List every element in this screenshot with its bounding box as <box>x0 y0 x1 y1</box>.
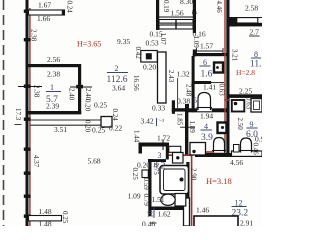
svg-text:2.48: 2.48 <box>185 84 193 97</box>
svg-text:2.56: 2.56 <box>47 55 60 64</box>
window stub top-left <box>29 10 65 15</box>
svg-text:2.25: 2.25 <box>239 87 252 96</box>
svg-text:2.91: 2.91 <box>240 219 253 227</box>
svg-text:0.38: 0.38 <box>177 97 190 106</box>
wall room3 jog <box>148 159 166 162</box>
tick left wall y86 <box>18 86 42 88</box>
svg-text:3.42: 3.42 <box>141 117 154 126</box>
svg-text:2.75: 2.75 <box>152 163 160 176</box>
wall room4 left <box>185 111 188 155</box>
svg-text:0.24: 0.24 <box>66 1 74 14</box>
wall room1 right <box>78 64 81 114</box>
svg-text:0.63: 0.63 <box>218 84 226 97</box>
svg-text:1.41: 1.41 <box>203 83 216 92</box>
svg-text:H=3.18: H=3.18 <box>206 176 232 186</box>
svg-text:0.46: 0.46 <box>142 220 155 227</box>
toilet room10 <box>175 194 186 207</box>
wall toilet5 left <box>192 84 195 112</box>
wall room12 left white-cored <box>184 198 190 226</box>
svg-text:2: 2 <box>115 64 119 73</box>
svg-text:1.85: 1.85 <box>176 113 184 126</box>
svg-text:3: 3 <box>158 151 162 160</box>
svg-text:2.7: 2.7 <box>250 28 260 37</box>
svg-text:2.38: 2.38 <box>33 85 41 98</box>
svg-text:8.30: 8.30 <box>180 0 193 6</box>
svg-text:0.63: 0.63 <box>245 97 253 110</box>
framed opening above room4 <box>197 109 213 112</box>
washing machine room10 <box>190 143 206 156</box>
shaft room4 <box>218 123 227 134</box>
svg-text:0.59: 0.59 <box>142 178 150 191</box>
svg-text:2.50: 2.50 <box>236 118 244 131</box>
shower tray <box>160 166 189 195</box>
svg-text:1.07: 1.07 <box>159 33 167 46</box>
svg-text:2.39: 2.39 <box>46 102 59 111</box>
svg-text:2.43: 2.43 <box>167 70 175 83</box>
svg-text:23.2: 23.2 <box>232 209 249 219</box>
wall hall corner L <box>172 100 175 114</box>
svg-text:1.09: 1.09 <box>192 36 200 49</box>
svg-text:H=2.8: H=2.8 <box>236 68 255 77</box>
svg-text:0.22: 0.22 <box>109 124 122 133</box>
svg-text:3.21: 3.21 <box>231 49 239 62</box>
small rect room9 <box>234 145 240 153</box>
svg-text:0.25: 0.25 <box>131 168 139 181</box>
red jog near toilet5 <box>224 99 230 101</box>
thin line hall extension <box>177 78 179 108</box>
toilet room4 <box>214 138 225 153</box>
svg-text:2.38: 2.38 <box>30 29 38 42</box>
window stub bottom-left <box>29 216 62 221</box>
old partition double lines <box>30 119 101 121</box>
svg-text:0.20: 0.20 <box>84 120 92 133</box>
svg-text:1.48: 1.48 <box>39 207 52 216</box>
svg-text:5: 5 <box>193 96 197 105</box>
svg-text:1.67: 1.67 <box>38 1 51 10</box>
wall main right vertical <box>226 0 229 157</box>
red line above bottom wall <box>166 154 191 156</box>
svg-text:1.89: 1.89 <box>188 121 196 134</box>
svg-text:0.25: 0.25 <box>94 101 107 110</box>
appliance kitchen A2 <box>251 99 262 113</box>
svg-text:1.62: 1.62 <box>158 210 171 219</box>
closet room12 bottom <box>194 216 238 228</box>
svg-text:1.44: 1.44 <box>133 130 141 143</box>
svg-text:5.68: 5.68 <box>88 157 101 166</box>
svg-text:9.35: 9.35 <box>117 37 130 46</box>
svg-text:3.9: 3.9 <box>201 133 213 143</box>
wall toilet5 top <box>192 81 212 84</box>
svg-text:1: 1 <box>50 83 54 92</box>
column stub end of old partition <box>101 117 112 128</box>
wall left exterior <box>26 0 29 226</box>
svg-text:0.25: 0.25 <box>92 126 105 135</box>
bottom wall rooms 4/9 <box>195 153 232 157</box>
door leaf room3 upper <box>142 170 148 178</box>
svg-text:1.56: 1.56 <box>171 9 184 18</box>
svg-text:0.24: 0.24 <box>111 109 119 122</box>
svg-text:1.09: 1.09 <box>128 192 141 201</box>
svg-text:3.64: 3.64 <box>112 84 125 93</box>
door leaf hall <box>169 146 181 152</box>
svg-text:0.19: 0.19 <box>162 0 170 13</box>
svg-text:1.32: 1.32 <box>177 70 190 79</box>
boundary dashed line <box>3 0 5 226</box>
wall room3 right <box>166 143 169 160</box>
svg-text:17.3: 17.3 <box>14 108 22 121</box>
wall room6 corner piece <box>193 50 196 57</box>
drain square <box>173 153 184 164</box>
svg-text:10: 10 <box>146 210 155 218</box>
wall shower right <box>186 162 189 207</box>
svg-text:7: 7 <box>157 119 165 123</box>
stair window row1 <box>159 20 193 24</box>
svg-text:1.46: 1.46 <box>196 206 209 215</box>
svg-text:1.57: 1.57 <box>200 42 213 51</box>
wall nubs on left wall <box>24 10 31 218</box>
svg-text:4.46: 4.46 <box>215 1 223 14</box>
wall stair left <box>156 0 159 30</box>
wall room6 left <box>192 56 195 84</box>
wall toilet5 bottom / room4 top <box>185 108 229 112</box>
svg-text:0.20: 0.20 <box>84 99 92 112</box>
svg-text:1.94: 1.94 <box>200 112 213 121</box>
svg-text:2.40: 2.40 <box>68 88 76 101</box>
svg-text:H=3.65: H=3.65 <box>77 40 101 49</box>
red line main right <box>224 0 225 157</box>
svg-text:16.56: 16.56 <box>132 75 140 91</box>
red line left wall <box>29 8 30 226</box>
top-right window wall <box>230 17 263 19</box>
bottom wall white-cored right <box>232 151 263 156</box>
toilet room5 <box>198 93 211 111</box>
tick room4 left wall <box>180 126 195 128</box>
svg-text:1.51: 1.51 <box>152 195 165 204</box>
wall stair right <box>193 0 196 33</box>
tick room1 right wall <box>70 86 92 88</box>
svg-text:0.20: 0.20 <box>143 63 156 72</box>
svg-text:0.33: 0.33 <box>152 104 165 113</box>
svg-text:1.66: 1.66 <box>37 14 50 23</box>
svg-text:0.42: 0.42 <box>134 47 142 60</box>
svg-text:.2: .2 <box>190 10 198 16</box>
svg-text:0.53: 0.53 <box>146 39 159 48</box>
underline 17.3 <box>15 124 22 126</box>
svg-text:1.48: 1.48 <box>39 220 52 227</box>
svg-text:2.90: 2.90 <box>190 168 198 181</box>
stair sill line <box>159 16 193 18</box>
wall room1 bottom <box>27 111 81 114</box>
shaft room6 <box>214 63 223 73</box>
wall room3 left vertical <box>148 159 151 216</box>
svg-text:1.6: 1.6 <box>201 70 213 80</box>
wall room1 top <box>27 64 81 67</box>
svg-text:0.79: 0.79 <box>142 194 150 207</box>
toilet room9 <box>241 138 252 153</box>
svg-text:2.38: 2.38 <box>47 70 60 79</box>
svg-text:3.51: 3.51 <box>54 125 67 134</box>
svg-text:1.72: 1.72 <box>157 134 170 143</box>
dimension line room6 top <box>197 50 224 52</box>
wall shower bottom <box>150 207 190 211</box>
appliance kitchen A1 <box>232 100 245 112</box>
kitchen wall right <box>230 94 263 98</box>
wall hall bottom <box>139 143 170 147</box>
svg-text:4.37: 4.37 <box>32 155 40 168</box>
stair window row2 <box>159 25 193 29</box>
column tall narrow <box>158 52 167 103</box>
svg-text:2.58: 2.58 <box>245 4 258 13</box>
svg-text:0.46: 0.46 <box>252 143 260 156</box>
wall room6 top <box>193 53 230 56</box>
pier head top-center <box>141 51 158 63</box>
red line vertical room12 <box>191 152 193 226</box>
svg-text:0.25: 0.25 <box>61 211 69 224</box>
svg-text:4.56: 4.56 <box>230 158 243 167</box>
